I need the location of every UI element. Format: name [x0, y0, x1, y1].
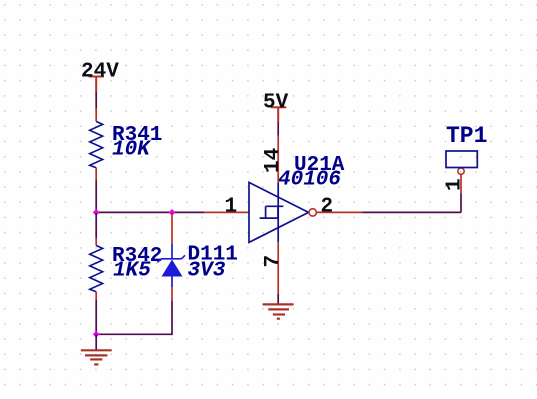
- pin 14 of U21A: [277, 136, 279, 184]
- pin 1 of TP1: [460, 175, 462, 194]
- svg-text:1: 1: [444, 178, 467, 191]
- wire pin7 to ground: [277, 294, 279, 305]
- ground right: [263, 304, 294, 318]
- ground left: [81, 350, 112, 364]
- svg-text:7: 7: [262, 255, 285, 268]
- svg-text:5V: 5V: [263, 92, 289, 115]
- power port 24V bar: [89, 77, 104, 93]
- wire R342 to bottom: [95, 300, 97, 334]
- resistor R341 body: [90, 122, 103, 168]
- svg-text:14: 14: [262, 148, 285, 173]
- svg-text:2: 2: [321, 196, 334, 219]
- junction node C: [93, 331, 100, 338]
- diode D111 pin top: [171, 213, 173, 244]
- svg-text:40106: 40106: [278, 169, 341, 192]
- wire node to R342: [95, 213, 97, 238]
- wire to ground left: [95, 334, 97, 350]
- wire bottom horizontal: [96, 333, 173, 335]
- hysteresis symbol: [260, 206, 284, 218]
- resistor R1 pin top: [95, 108, 97, 122]
- pin 1 of U21A: [204, 211, 249, 213]
- pin 14/7 inner vertical: [277, 183, 279, 242]
- svg-text:3V3: 3V3: [188, 259, 226, 282]
- svg-text:TP1: TP1: [446, 123, 487, 149]
- resistor R342 pin bottom: [95, 292, 97, 300]
- wire D111 to bottom: [171, 301, 173, 334]
- resistor R342 body: [90, 246, 103, 292]
- testpoint TP1 body: [446, 151, 477, 168]
- TP1 pin circle: [458, 168, 464, 174]
- pin 2 of U21A: [317, 211, 363, 213]
- wire node horizontal: [96, 211, 204, 213]
- junction node A: [93, 209, 100, 216]
- diode D111 pin bottom: [171, 287, 173, 301]
- wire pin2 to TP1: [363, 211, 462, 213]
- junction node B: [169, 209, 176, 216]
- svg-text:10K: 10K: [112, 138, 152, 161]
- wire R341 to node: [95, 181, 97, 213]
- pin 7 of U21A: [277, 242, 279, 294]
- resistor R342 pin top: [95, 238, 97, 246]
- svg-text:1K5: 1K5: [113, 259, 151, 282]
- wire 5V to pin14: [277, 123, 279, 136]
- inversion bubble pin 2: [309, 209, 316, 216]
- diode D111 body: [158, 244, 186, 287]
- op-amp U1 triangle (inverter U21A): [249, 182, 309, 242]
- svg-text:24V: 24V: [81, 61, 119, 84]
- svg-text:1: 1: [225, 196, 238, 219]
- resistor R1 pin bottom: [95, 168, 97, 181]
- wire 24V to R341: [95, 92, 97, 109]
- wire TP1 vertical: [460, 194, 462, 213]
- power port 5V bar: [271, 107, 287, 123]
